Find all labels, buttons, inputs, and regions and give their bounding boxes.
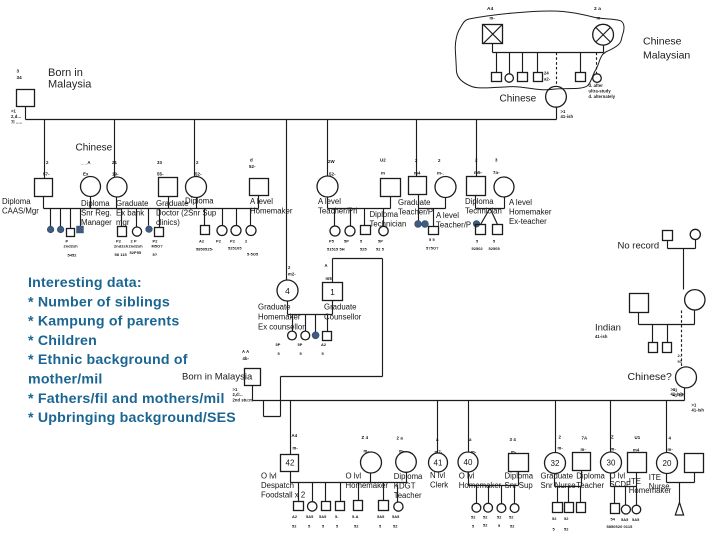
wire indian child2 <box>667 325 669 343</box>
wire no-record child drop <box>683 249 685 290</box>
child J1 square <box>553 503 563 513</box>
sibling 1 square <box>492 73 502 82</box>
wire 32-family marriage <box>555 471 582 487</box>
svg-text:m-: m- <box>558 446 564 451</box>
label wife1 <box>81 199 112 227</box>
svg-text:3: 3 <box>17 69 20 74</box>
svg-text:ultra-study: ultra-study <box>589 89 612 94</box>
svg-text:21: 21 <box>112 160 118 165</box>
svg-text:40: 40 <box>464 458 473 467</box>
svg-text:2nd2sh: 2nd2sh <box>129 244 144 249</box>
son1 square Diploma CAAS <box>35 179 53 197</box>
svg-text:34: 34 <box>17 75 23 80</box>
svg-text:52: 52 <box>471 515 476 520</box>
indian child1 square <box>649 343 658 353</box>
wire bottom father down <box>252 386 254 401</box>
indian mother circle <box>685 290 705 310</box>
svg-text:Chinese: Chinese <box>500 94 537 105</box>
svg-text:* Upbringing background/SES: * Upbringing background/SES <box>28 410 236 426</box>
age label c4 <box>328 159 336 177</box>
svg-text:2W: 2W <box>328 159 336 164</box>
wire child C1 <box>204 209 206 226</box>
age label circle4 <box>288 265 296 277</box>
child D2 circle <box>345 226 355 236</box>
child C1 square <box>201 226 210 235</box>
child E3 square <box>429 227 439 235</box>
label wife42a <box>346 471 389 490</box>
wire 30-family marriage <box>611 473 637 487</box>
label son7 <box>465 197 502 216</box>
svg-text:Diploma: Diploma <box>81 199 110 208</box>
label husband30 <box>629 477 672 495</box>
label A4 above grandfather <box>487 6 495 21</box>
child D3 square <box>361 226 371 235</box>
text Indian <box>595 323 621 340</box>
svg-text:Chinese: Chinese <box>76 143 113 154</box>
labels children K <box>607 517 641 530</box>
svg-text:Diploma: Diploma <box>576 471 605 480</box>
svg-text:57-: 57- <box>43 172 50 177</box>
child K3 circle <box>632 505 641 514</box>
wire 40-family marriage <box>469 472 519 486</box>
svg-text:>1: >1 <box>11 109 17 114</box>
svg-text:52: 52 <box>552 516 557 521</box>
child B3 dot <box>146 226 153 233</box>
wire child G2 <box>305 315 307 332</box>
child H1 square <box>294 502 304 511</box>
svg-text:Manager: Manager <box>81 218 112 227</box>
daughter3 circle <box>186 177 207 198</box>
child B2 circle <box>132 227 141 236</box>
svg-text:41-ish: 41-ish <box>692 407 705 412</box>
wire chinese? down <box>684 388 686 401</box>
svg-text:Malaysia: Malaysia <box>48 79 92 91</box>
svg-text:* Kampung of parents: * Kampung of parents <box>28 314 179 330</box>
label husband3 <box>250 197 293 216</box>
child G4 square <box>323 332 332 341</box>
svg-text:Indian: Indian <box>595 323 621 334</box>
svg-text:5A5: 5A5 <box>377 514 385 519</box>
no-record mother circle <box>690 229 700 239</box>
svg-text:d: d <box>250 158 253 163</box>
child H4 square <box>336 502 345 511</box>
svg-text:N lvl: N lvl <box>430 471 445 480</box>
svg-text:Graduate: Graduate <box>116 199 149 208</box>
svg-text:U2: U2 <box>380 158 386 163</box>
svg-text:mother/mil: mother/mil <box>28 372 103 388</box>
svg-text:* Number of siblings: * Number of siblings <box>28 294 170 310</box>
svg-text:m-: m- <box>581 447 587 452</box>
svg-text:Z 4: Z 4 <box>362 435 369 440</box>
sibling 4 square <box>534 73 543 82</box>
svg-text:Ex: Ex <box>83 172 89 177</box>
svg-text:5P: 5P <box>378 239 383 244</box>
svg-text:7A: 7A <box>582 436 589 441</box>
svg-text:2nd stu:m: 2nd stu:m <box>233 397 254 402</box>
svg-text:5452: 5452 <box>68 253 78 258</box>
svg-text:A2: A2 <box>321 342 327 347</box>
wire drop to son6 <box>416 120 418 177</box>
wire drop d32 <box>555 401 557 453</box>
child H2 circle <box>308 502 317 511</box>
svg-text:Graduate: Graduate <box>398 198 431 207</box>
svg-text:4: 4 <box>285 286 290 296</box>
svg-text:5?: 5? <box>153 252 158 257</box>
wire child H2 <box>312 483 314 502</box>
svg-text:5-5O5: 5-5O5 <box>247 252 259 257</box>
svg-text:52-: 52- <box>249 164 256 169</box>
svg-text:Graduate: Graduate <box>156 199 189 208</box>
freeform loop around maternal grandparents family <box>455 11 624 90</box>
svg-text:2 a: 2 a <box>397 436 404 441</box>
label daughter3 <box>185 197 214 206</box>
wire sq3 down <box>258 196 260 209</box>
svg-text:32: 32 <box>551 459 560 468</box>
husband32 square <box>573 453 591 471</box>
wire child E3 <box>433 209 435 227</box>
svg-text:CAAS/Mgr: CAAS/Mgr <box>2 207 39 216</box>
labels children A <box>64 239 79 258</box>
svg-text:Diploma: Diploma <box>2 197 31 206</box>
svg-text:3 4: 3 4 <box>510 437 517 442</box>
wire drop sib2 <box>509 53 511 74</box>
daughter20 circle <box>657 453 678 474</box>
wire child B2 <box>136 209 138 227</box>
label above father <box>17 69 23 81</box>
label daughter4 <box>258 303 305 332</box>
svg-text:525: 525 <box>360 247 368 252</box>
wire indian child1 <box>652 325 654 343</box>
svg-text:Malaysian: Malaysian <box>643 50 690 62</box>
svg-text:M5O?: M5O? <box>152 244 164 249</box>
svg-text:5?5O?: 5?5O? <box>426 246 439 251</box>
note under bottom father <box>233 387 254 402</box>
marriage line family E <box>419 208 446 210</box>
wire circle4 down <box>287 301 289 315</box>
wire c2 down <box>116 197 118 209</box>
indian father square <box>630 294 649 313</box>
labels children D <box>327 239 385 252</box>
svg-text:m5-: m5- <box>474 170 483 175</box>
svg-text:Diploma: Diploma <box>394 472 423 481</box>
labels children C <box>196 239 259 257</box>
child H7 circle <box>394 502 403 511</box>
svg-text:52: 52 <box>509 515 514 520</box>
wire c5 down <box>445 198 447 209</box>
wire c4 down <box>327 197 329 209</box>
age label sq2 <box>157 160 164 177</box>
child F2 square <box>476 225 486 235</box>
tiny marks near mother position <box>544 71 551 82</box>
husband20 square <box>685 454 704 473</box>
wire child K1 <box>614 487 616 504</box>
svg-text:52 5: 52 5 <box>376 247 385 252</box>
wire sq6 down <box>418 195 420 209</box>
deceased grandmother (circle with X) <box>593 24 614 45</box>
svg-text:Graduate: Graduate <box>541 471 574 480</box>
svg-text:A A: A A <box>242 349 249 354</box>
svg-text:d. after: d. after <box>589 83 604 88</box>
svg-text:A: A <box>325 263 328 268</box>
svg-text:2nd2sh: 2nd2sh <box>64 244 79 249</box>
child J2 square <box>565 503 574 513</box>
wire child H1 <box>298 483 300 502</box>
text No record <box>618 241 660 252</box>
wire child H7 <box>397 485 399 503</box>
wire child B1 <box>121 209 123 227</box>
svg-text:5A5: 5A5 <box>621 517 629 522</box>
svg-text:Ex counsellor: Ex counsellor <box>258 323 305 332</box>
age label sq3 <box>249 158 256 170</box>
svg-text:5-: 5- <box>335 514 339 519</box>
no-record father square <box>663 231 673 241</box>
labels children I <box>471 515 515 529</box>
svg-text:5P: 5P <box>298 342 303 347</box>
daughter5 circle <box>317 176 338 197</box>
child K2 circle <box>621 505 630 514</box>
svg-text:a2: a2 <box>678 359 683 364</box>
svg-text:Diploma: Diploma <box>505 471 534 480</box>
pregnancy triangle <box>675 503 683 516</box>
child I2 circle <box>484 503 493 512</box>
svg-text:Clerk: Clerk <box>430 480 448 489</box>
svg-text:55-: 55- <box>157 172 164 177</box>
husband4 square with 1 <box>323 283 343 301</box>
wire child G3 <box>315 315 317 332</box>
text Chinese? <box>628 371 673 383</box>
svg-text:A4: A4 <box>487 6 494 12</box>
wire drop sib1 <box>496 53 498 73</box>
sibling 6 square <box>576 73 586 82</box>
child C2 circle <box>217 226 227 236</box>
age label c5 <box>437 158 444 176</box>
husband3 square <box>250 179 269 196</box>
wire child J1 <box>557 487 559 503</box>
child A4 filled square <box>77 226 84 233</box>
dashed drop to mother <box>556 53 558 87</box>
svg-text:41-ish: 41-ish <box>561 114 574 119</box>
chinese? wife circle <box>676 367 697 388</box>
svg-text:Ex-teacher: Ex-teacher <box>509 217 547 226</box>
svg-text:Interesting data:: Interesting data: <box>28 275 142 291</box>
child F3 square <box>493 225 503 235</box>
text Born in Malaysia (bottom) <box>182 372 253 383</box>
label husband5 <box>370 210 407 229</box>
label daughter32 <box>541 471 576 490</box>
sibling 3 square <box>518 73 528 82</box>
labels children B <box>114 239 163 258</box>
age label c3 <box>195 160 202 177</box>
svg-text:A level: A level <box>436 211 459 220</box>
svg-text:m-: m- <box>597 16 603 21</box>
svg-text:5 5: 5 5 <box>429 237 435 242</box>
wire drop to daughter2 <box>114 120 116 178</box>
u-detour below bottom line <box>264 401 281 417</box>
svg-text:7l .....: 7l ..... <box>11 120 22 125</box>
svg-text:Diploma: Diploma <box>370 210 399 219</box>
svg-text:Technician: Technician <box>370 220 407 229</box>
svg-text:Snr Reg.: Snr Reg. <box>81 209 112 218</box>
wife1 circle <box>81 177 101 197</box>
svg-text:A level: A level <box>318 197 341 206</box>
marriage line family F <box>476 208 505 210</box>
son6 square <box>409 177 427 195</box>
wire square1 up-over-down to bottom line <box>281 259 383 401</box>
svg-text:A level: A level <box>509 198 532 207</box>
wife7 circle <box>494 177 514 197</box>
dashed wire to Chinese? circle <box>678 311 683 367</box>
labels children G <box>276 342 327 356</box>
wife6 circle <box>435 177 456 198</box>
svg-text:m5: m5 <box>326 276 333 281</box>
bottom marriage line <box>253 400 685 402</box>
wire drop son42 <box>290 401 292 455</box>
svg-text:7a-: 7a- <box>493 170 500 175</box>
wife42a circle <box>361 452 382 473</box>
wire child H6 <box>383 483 385 501</box>
svg-text:525105: 525105 <box>228 246 242 251</box>
svg-text:41: 41 <box>434 459 443 468</box>
child I4 circle <box>510 504 519 513</box>
wire child I3 <box>501 486 503 504</box>
labels children J <box>552 516 569 532</box>
mother circle <box>546 86 567 107</box>
label daughter2 <box>116 199 149 227</box>
child A3 square <box>67 229 75 237</box>
child D1 circle <box>330 226 340 236</box>
age label sq7 <box>474 158 483 176</box>
dashed drop sib7 <box>596 53 598 74</box>
child I1 circle <box>472 503 481 512</box>
svg-text:33: 33 <box>157 160 163 165</box>
daughter41 circle <box>429 453 448 472</box>
wire child A2 <box>60 209 62 227</box>
svg-text:4b-: 4b- <box>243 356 250 361</box>
svg-text:5-A: 5-A <box>352 514 359 519</box>
svg-text:P2: P2 <box>216 239 222 244</box>
label husband2 <box>156 199 217 227</box>
wire drop to son1 <box>44 120 46 179</box>
text Chinese Malaysian <box>643 36 690 62</box>
svg-text:A2: A2 <box>199 239 205 244</box>
svg-text:52505: 52505 <box>489 246 501 251</box>
svg-text:51515 5H: 51515 5H <box>327 247 345 252</box>
long wire drop to daughter4 <box>286 120 288 281</box>
label son1 <box>2 197 39 216</box>
svg-text:P5: P5 <box>329 239 335 244</box>
svg-text:Diploma: Diploma <box>465 197 494 206</box>
svg-text:5P: 5P <box>276 342 281 347</box>
svg-text:Born in Malaysia: Born in Malaysia <box>182 372 253 383</box>
text Chinese (gen2) <box>76 143 113 154</box>
top marriage line <box>26 119 557 121</box>
wire child C4 <box>250 209 252 226</box>
svg-text:A level: A level <box>250 197 273 206</box>
wire drop d40 <box>468 401 470 453</box>
svg-text:52: 52 <box>292 524 297 529</box>
label daughter40 <box>459 471 502 490</box>
wire no-record marriage <box>668 240 696 249</box>
sibling 7 circle <box>593 74 602 83</box>
wire child D3 <box>364 209 366 226</box>
svg-text:5A5: 5A5 <box>392 514 400 519</box>
wire child A3 <box>70 209 72 229</box>
svg-text:Despatch: Despatch <box>261 481 294 490</box>
wire father to marriage line <box>25 107 27 120</box>
child K1 square <box>611 504 620 514</box>
wire drop d41 <box>437 401 439 453</box>
svg-text:* Children: * Children <box>28 333 97 349</box>
wire drop to daughter3 <box>194 120 196 177</box>
svg-text:* Fathers/fil and mothers/mil: * Fathers/fil and mothers/mil <box>28 391 225 407</box>
wire child B4 <box>159 209 161 228</box>
child A1 dot <box>47 226 54 233</box>
bottom father square <box>245 369 261 386</box>
wife42b circle <box>396 452 417 473</box>
tags above bottom row <box>292 433 674 455</box>
svg-text:m-: m- <box>293 446 299 451</box>
svg-text:52: 52 <box>483 515 488 520</box>
svg-text:5850520 0115: 5850520 0115 <box>607 524 634 529</box>
svg-text:5P: 5P <box>344 239 349 244</box>
note under mother <box>561 109 574 119</box>
child E2 dot <box>422 221 429 228</box>
svg-text:Nurse: Nurse <box>649 482 670 491</box>
child H5 square <box>354 501 363 511</box>
child D4 circle <box>379 226 388 235</box>
svg-text:m2-: m2- <box>288 272 296 277</box>
svg-text:2nd2sh: 2nd2sh <box>114 244 129 249</box>
child J3 square <box>577 503 586 513</box>
husband2 square <box>159 178 178 197</box>
wire sq1 down <box>43 197 45 209</box>
labels children H <box>292 514 400 529</box>
svg-text:41-ish: 41-ish <box>595 334 608 339</box>
label husband32 <box>576 471 605 490</box>
sibling line of mother's family <box>493 52 604 54</box>
wire mother down to marriage line <box>556 108 558 120</box>
marriage line families A-C <box>44 208 259 210</box>
child H3 square <box>322 502 331 511</box>
svg-text:O lvl: O lvl <box>261 471 277 480</box>
wire child H4 <box>340 483 342 502</box>
wire 20-family marriage <box>667 473 695 483</box>
wire drop d20 <box>666 401 668 453</box>
child I3 circle <box>497 504 506 513</box>
wire sq7 down <box>475 196 477 209</box>
svg-text:52502: 52502 <box>472 246 484 251</box>
label wife42b <box>394 472 423 500</box>
wire child G1 <box>292 315 294 332</box>
wire c6 down <box>504 197 506 209</box>
svg-text:m-: m- <box>668 447 674 452</box>
age label c6 <box>493 158 500 176</box>
svg-text:O lvl: O lvl <box>459 471 475 480</box>
svg-text:58 115: 58 115 <box>115 252 128 257</box>
wire child D2 <box>350 209 352 227</box>
svg-text:30: 30 <box>607 459 616 468</box>
svg-text:U1: U1 <box>635 435 641 440</box>
svg-text:mgr: mgr <box>116 218 130 227</box>
note under father <box>11 109 22 125</box>
father square <box>17 90 35 107</box>
wire child K2 <box>625 487 627 505</box>
child B4 square <box>155 228 164 237</box>
wire drop to son7 <box>476 120 478 177</box>
wire child K3 <box>636 487 638 506</box>
child G3 dot <box>312 332 319 339</box>
svg-text:Diploma: Diploma <box>185 197 214 206</box>
